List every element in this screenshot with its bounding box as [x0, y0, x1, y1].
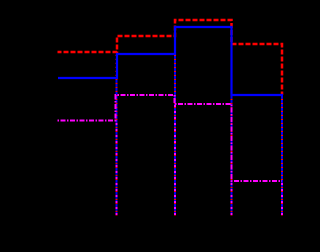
red dashed step curve: [58, 20, 283, 95]
drop line event3 blue dotted: [231, 95, 233, 216]
drop line event4 red dotted: [281, 95, 283, 216]
drop line event3 magenta dotted: [231, 181, 233, 216]
magenta dash-dot step curve: [58, 95, 283, 181]
drop line event1 magenta dotted: [116, 121, 118, 216]
drop line event2 blue dotted: [174, 54, 176, 216]
drop line event3 red dotted: [231, 44, 233, 216]
drop line event1 red dotted: [116, 52, 118, 216]
drop line event2 magenta dotted: [174, 104, 176, 216]
drop line event2 red dotted: [174, 36, 176, 216]
drop line event1 blue dotted: [116, 78, 118, 216]
blue solid step curve: [58, 27, 283, 95]
drop line event4 blue dotted: [281, 96, 283, 216]
drop line event4 magenta dotted: [281, 181, 283, 216]
